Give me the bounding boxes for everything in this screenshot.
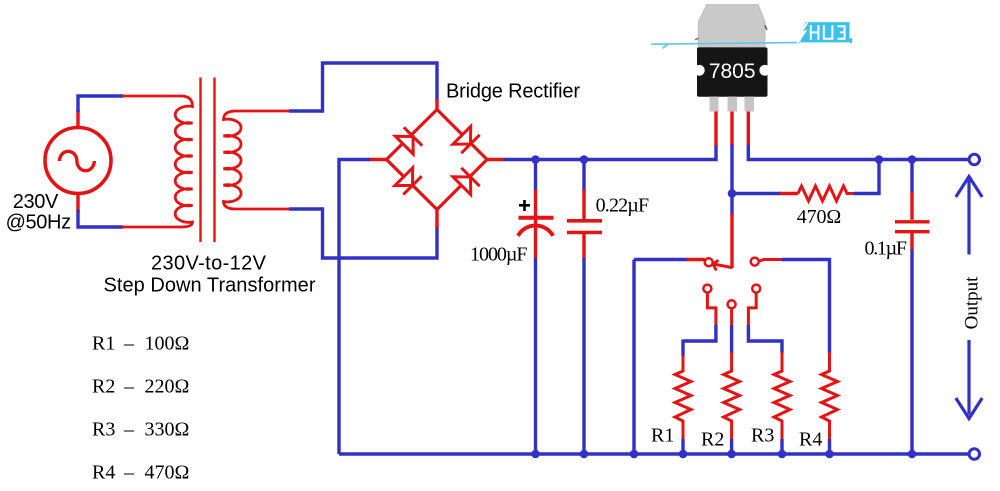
svg-text:–: – <box>123 462 135 484</box>
svg-text:–: – <box>123 376 135 398</box>
node junction 7805 gnd / 470 ohm <box>728 189 737 198</box>
output up arrow <box>956 177 982 255</box>
wire main dc line to 7805 input <box>504 110 717 160</box>
node junction C1 top <box>531 155 540 164</box>
IC U1 7805 heatsink tab <box>695 5 767 48</box>
AC source V1 circle <box>45 128 111 194</box>
svg-text:330Ω: 330Ω <box>145 419 190 441</box>
switch contact lower-left <box>683 285 716 341</box>
bridge rectifier diamond <box>387 110 488 210</box>
switch contact lower-middle <box>728 300 736 353</box>
legend row R3 <box>92 419 189 441</box>
capacitor C1 1000uF plates <box>518 218 554 236</box>
wire 7805 ground pin down <box>730 111 733 268</box>
wire switch left feed <box>634 260 705 455</box>
svg-text:0.1µF: 0.1µF <box>865 238 908 260</box>
resistor R1 <box>675 340 691 455</box>
diode D4 bottom-right <box>453 168 480 195</box>
resistor R2 <box>724 352 740 454</box>
svg-text:R4: R4 <box>799 429 822 451</box>
switch contact top-left <box>705 258 713 266</box>
watermark line <box>651 43 800 49</box>
svg-text:–: – <box>123 419 135 441</box>
wire bridge right stub <box>487 158 505 161</box>
svg-text:R1: R1 <box>651 425 674 447</box>
node junction C2 top <box>580 155 589 164</box>
resistor R3 <box>774 352 790 454</box>
svg-text:Bridge Rectifier: Bridge Rectifier <box>446 81 580 103</box>
diode D3 bottom-left <box>395 168 422 195</box>
capacitor C3 0.1uF plates <box>895 222 930 232</box>
capacitor C1 1000uF vertical leads <box>534 160 537 455</box>
node junction C3 top <box>908 155 917 164</box>
wire secondary top to bridge top <box>289 63 437 111</box>
svg-text:Output: Output <box>962 276 983 330</box>
svg-text:R2: R2 <box>92 376 115 398</box>
wire bridge left to ground bus <box>339 160 370 455</box>
svg-text:470Ω: 470Ω <box>145 462 190 484</box>
legend row R4 <box>92 462 189 484</box>
C1 plus sign <box>519 200 530 211</box>
node bus junctions <box>531 450 916 459</box>
svg-text:Step Down Transformer: Step Down Transformer <box>104 275 316 297</box>
svg-text:470Ω: 470Ω <box>797 206 842 228</box>
svg-text:7805: 7805 <box>709 60 756 83</box>
svg-text:230V-to-12V: 230V-to-12V <box>151 253 267 275</box>
terminal output negative <box>969 449 979 459</box>
wire source bottom vertical <box>78 194 124 228</box>
watermark HU3 badge <box>798 22 853 43</box>
resistor R4 <box>822 352 838 454</box>
svg-text:1000µF: 1000µF <box>470 244 528 266</box>
transformer T1 primary winding <box>122 96 193 227</box>
legend row R1 <box>92 333 189 355</box>
wire switch right to R4 <box>782 260 830 354</box>
svg-text:R1: R1 <box>92 333 115 355</box>
wire 7805 output line to terminal <box>748 111 969 160</box>
svg-text:100Ω: 100Ω <box>145 333 190 355</box>
svg-text:230V: 230V <box>13 191 59 213</box>
capacitor C3 0.1uF leads <box>910 160 913 455</box>
resistor R5 470 ohm branch <box>732 160 879 202</box>
transformer T1 secondary winding <box>224 111 291 209</box>
diode D2 top-right <box>453 126 480 153</box>
diode D1 top-left <box>395 127 422 154</box>
svg-text:0.22µF: 0.22µF <box>596 195 650 217</box>
wire secondary bottom to bridge bottom <box>289 209 437 258</box>
svg-text:R3: R3 <box>751 425 774 447</box>
wire bridge left stub <box>368 158 387 161</box>
IC U1 7805 body <box>694 47 770 96</box>
switch contact top-right <box>751 258 783 266</box>
terminal output positive <box>969 154 979 164</box>
svg-text:R4: R4 <box>92 462 115 484</box>
IC U1 7805 legs <box>710 97 755 112</box>
capacitor C2 0.22uF plates <box>567 221 602 233</box>
wire source top vertical <box>78 96 124 128</box>
label 230V @50Hz <box>6 191 72 234</box>
svg-text:–: – <box>123 333 135 355</box>
capacitor C2 0.22uF leads <box>582 160 585 455</box>
svg-text:220Ω: 220Ω <box>145 376 190 398</box>
switch contact lower-right <box>748 285 782 353</box>
transformer T1 core <box>201 78 215 243</box>
wire ground bus <box>339 452 969 455</box>
legend row R2 <box>92 376 189 398</box>
node junction 470 ohm to output line <box>875 155 884 164</box>
svg-text:R2: R2 <box>701 429 724 451</box>
switch rotary arm <box>713 260 732 270</box>
svg-text:@50Hz: @50Hz <box>6 212 72 234</box>
output down arrow <box>956 340 982 419</box>
svg-text:R3: R3 <box>92 419 115 441</box>
